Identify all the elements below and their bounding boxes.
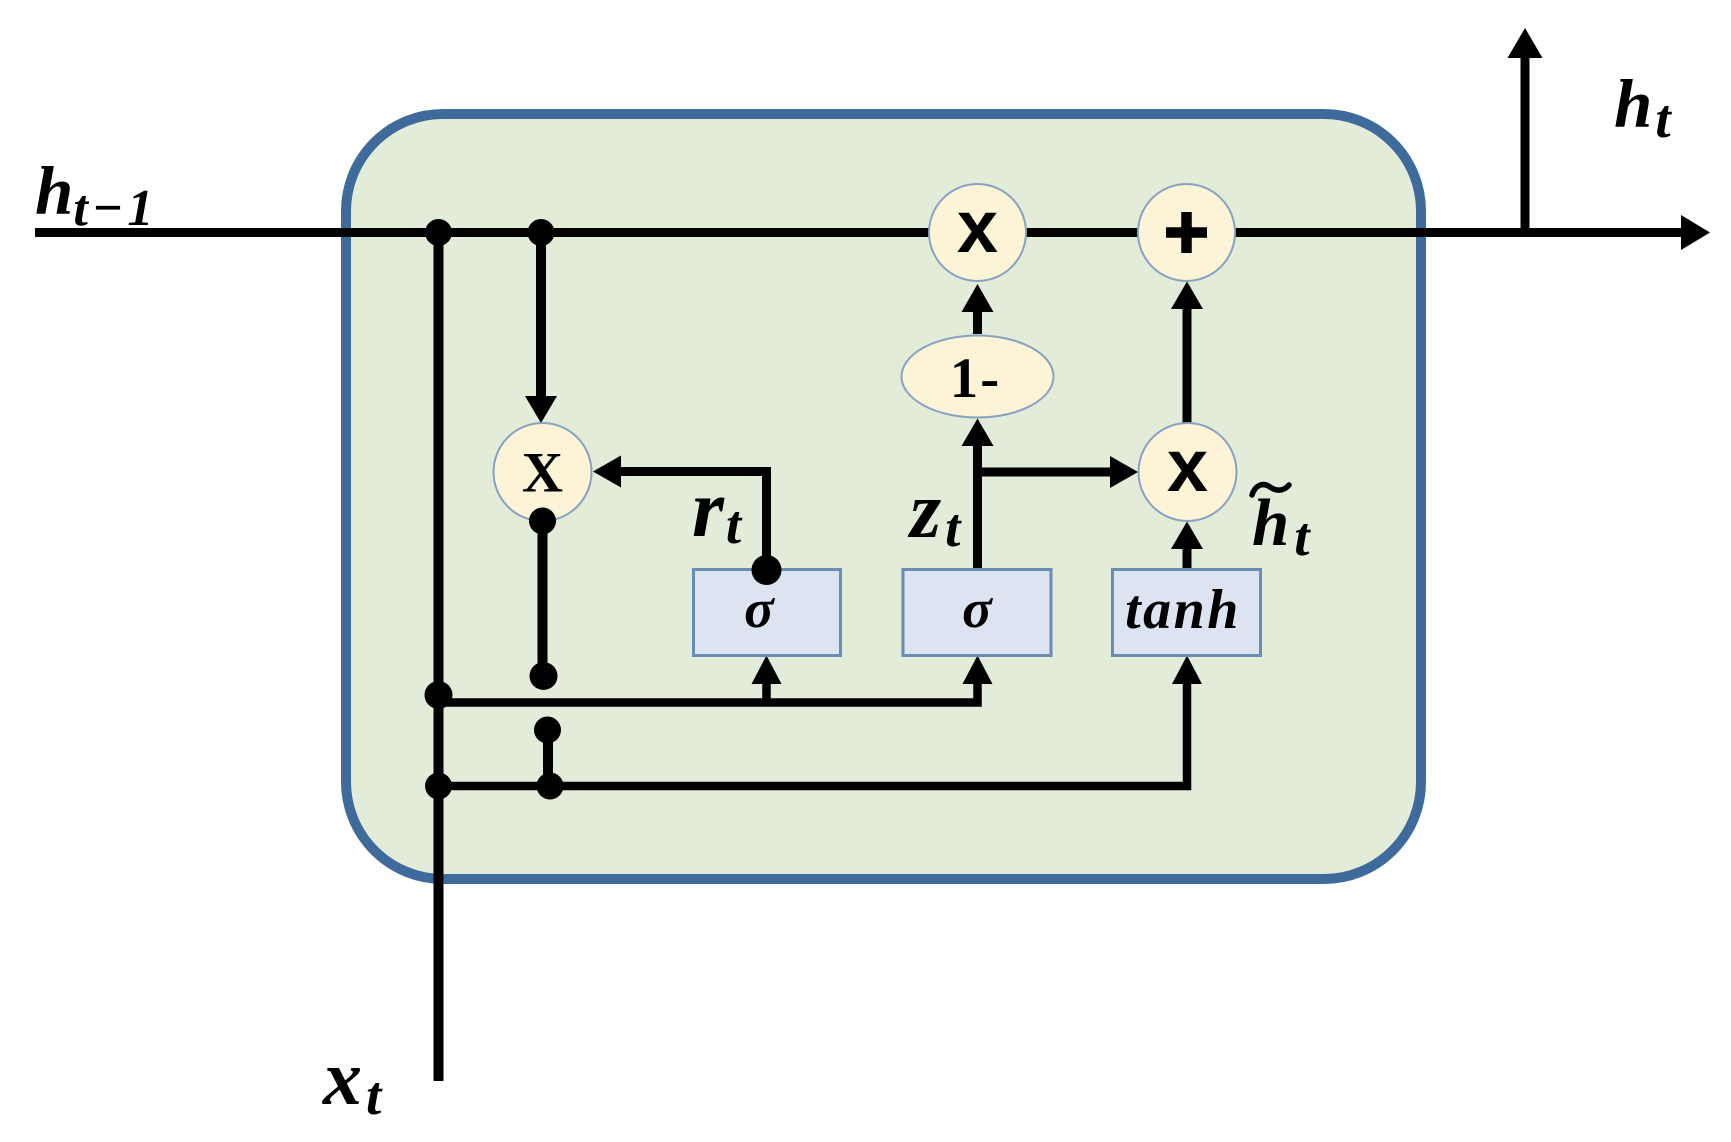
svg-text:1-: 1-	[950, 347, 1001, 410]
svg-text:σ: σ	[744, 578, 775, 639]
svg-text:x: x	[957, 185, 998, 268]
svg-text:X: X	[522, 442, 563, 505]
svg-text:ht−1: ht−1	[35, 153, 157, 237]
svg-text:ht: ht	[1614, 66, 1672, 149]
svg-text:x: x	[1167, 424, 1208, 507]
svg-text:σ: σ	[962, 578, 993, 639]
svg-text:xt: xt	[322, 1034, 383, 1126]
svg-text:tanh: tanh	[1125, 579, 1241, 641]
